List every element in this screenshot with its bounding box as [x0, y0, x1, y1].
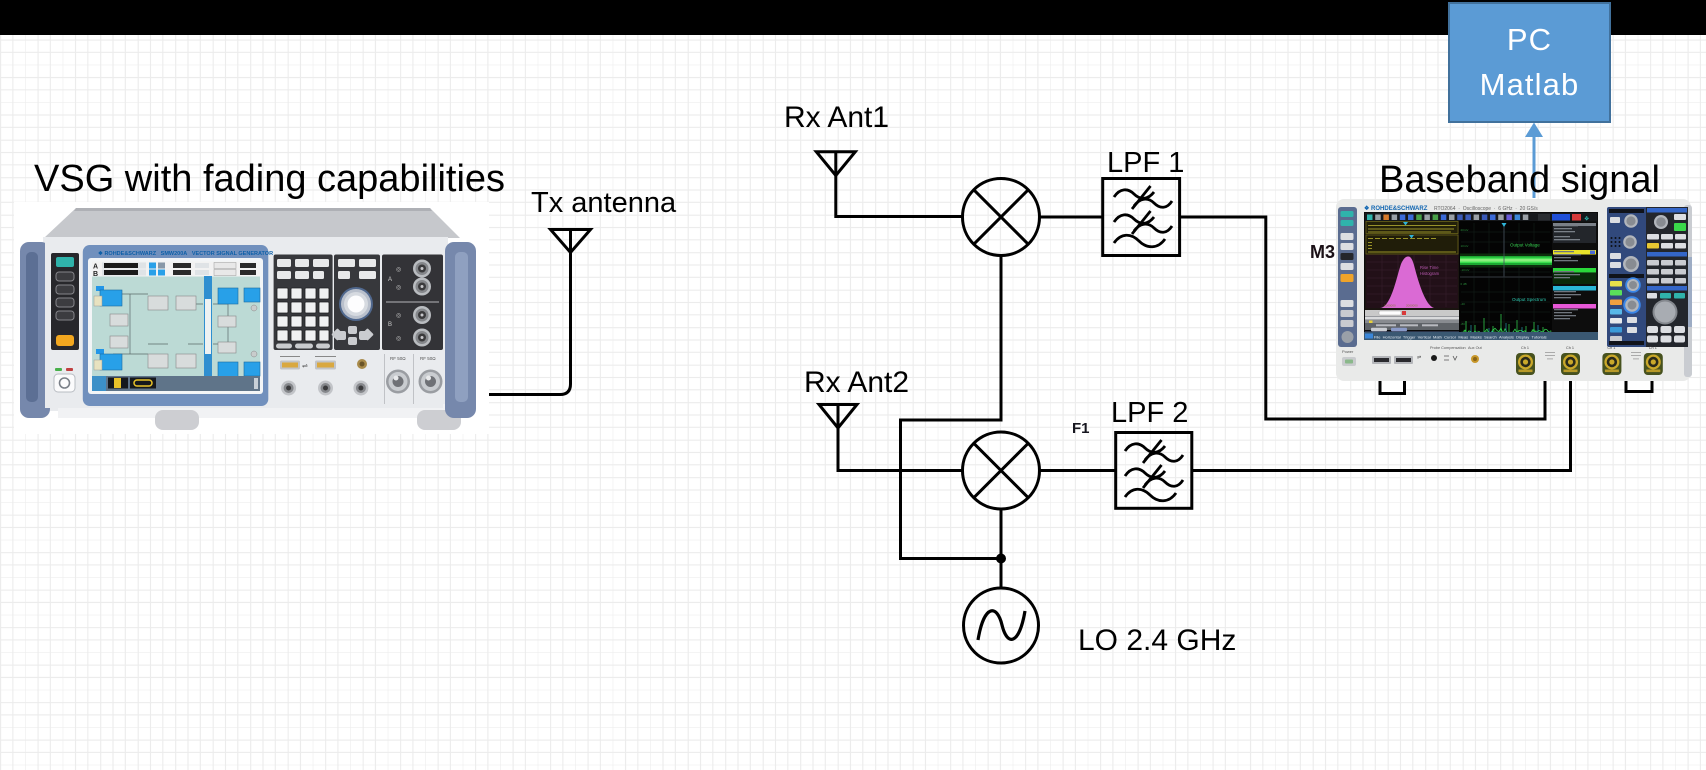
svg-text:❖ ROHDE&SCHWARZ: ❖ ROHDE&SCHWARZ — [1364, 205, 1428, 212]
svg-text:-40: -40 — [1461, 302, 1466, 306]
svg-text:A: A — [388, 277, 392, 283]
svg-text:⇌: ⇌ — [302, 363, 308, 370]
svg-text:2000000: 2000000 — [1406, 304, 1418, 308]
svg-text:❖ ROHDE&SCHWARZ SMW200A VE: ❖ ROHDE&SCHWARZ SMW200A VECTOR SIGNAL GE… — [98, 250, 273, 257]
svg-text:Probe Compensation: Probe Compensation — [1430, 346, 1466, 350]
svg-text:Output Voltage: Output Voltage — [1510, 243, 1540, 248]
svg-text:◎: ◎ — [396, 267, 401, 273]
svg-text:❖: ❖ — [1584, 217, 1589, 223]
svg-text:Output Spectrum: Output Spectrum — [1512, 297, 1546, 302]
svg-text:File Horizontal Trigger Ver: File Horizontal Trigger Vertical Math Cu… — [1374, 334, 1547, 339]
svg-text:-80: -80 — [1461, 322, 1466, 326]
svg-text:RF 50Ω: RF 50Ω — [420, 356, 436, 361]
svg-text:B: B — [388, 322, 392, 328]
svg-text:◎: ◎ — [396, 313, 401, 319]
svg-text:◎: ◎ — [396, 285, 401, 291]
svg-text:RTO2064 · Oscilloscope · 6: RTO2064 · Oscilloscope · 6 GHz · 20 GS/s — [1434, 206, 1538, 212]
svg-text:Aux Out: Aux Out — [1468, 346, 1483, 350]
svg-text:1000000: 1000000 — [1384, 304, 1396, 308]
svg-text:B: B — [93, 271, 98, 278]
svg-text:Ch 1: Ch 1 — [1521, 346, 1529, 350]
svg-text:20mV: 20mV — [1461, 228, 1469, 232]
svg-text:RF 50Ω: RF 50Ω — [390, 356, 406, 361]
svg-text:◎: ◎ — [396, 336, 401, 342]
svg-text:-10mV: -10mV — [1461, 268, 1470, 272]
svg-text:A: A — [93, 264, 98, 271]
svg-text:⇌: ⇌ — [1417, 355, 1421, 361]
svg-text:10mV: 10mV — [1461, 244, 1469, 248]
svg-text:0 dB: 0 dB — [1461, 282, 1467, 286]
svg-text:Power: Power — [1342, 349, 1354, 354]
svg-text:Histogram: Histogram — [1420, 271, 1440, 276]
svg-text:Rise Time: Rise Time — [1420, 265, 1439, 270]
